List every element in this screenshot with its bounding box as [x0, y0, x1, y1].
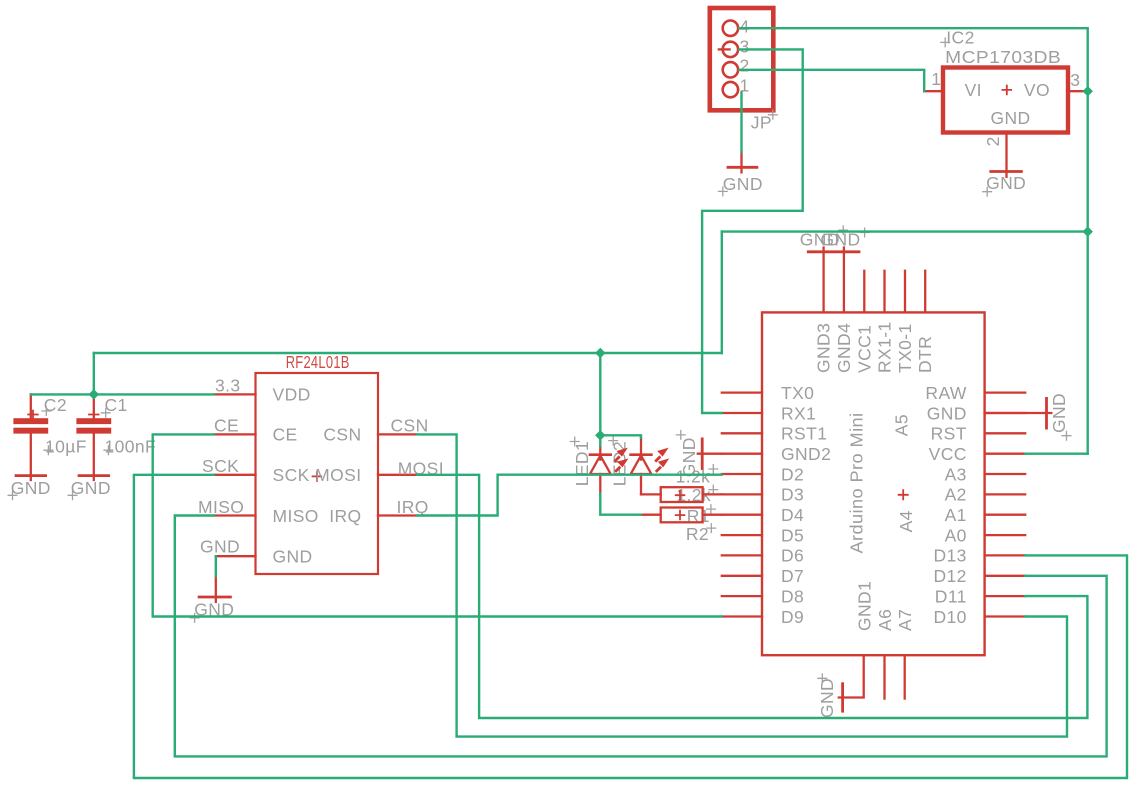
wire JP2 to IC2 VI	[739, 70, 924, 91]
svg-text:GND: GND	[273, 547, 313, 567]
wire CSN to D10	[417, 434, 1067, 736]
arduino bottom pin stubs	[839, 655, 905, 698]
wire LED riser	[599, 353, 601, 435]
svg-text:SCK: SCK	[202, 456, 239, 476]
ground GND1 symbol (arduino bottom)	[817, 673, 843, 718]
svg-text:GND: GND	[1049, 393, 1069, 433]
ground GND2 symbol (arduino left)	[676, 430, 722, 477]
svg-text:MISO: MISO	[198, 497, 244, 517]
svg-text:D12: D12	[933, 566, 966, 586]
resistor R2 (to D4)	[641, 508, 722, 545]
rf24 right pin stubs	[378, 434, 417, 515]
wire y232 rail to riser	[722, 230, 1088, 232]
svg-text:VI: VI	[965, 80, 982, 100]
svg-text:4: 4	[740, 17, 750, 37]
wire riser x721.8	[721, 232, 723, 353]
node junction J3	[595, 430, 605, 440]
svg-text:D11: D11	[935, 586, 967, 606]
module U2 RF24L01B	[198, 352, 444, 574]
pin circle 3	[723, 42, 738, 57]
IC U1 Arduino Pro Mini	[722, 248, 1025, 699]
svg-text:GND: GND	[927, 403, 967, 423]
svg-text:IRQ: IRQ	[329, 506, 361, 526]
R2 origin cross red	[675, 510, 686, 521]
svg-text:R2: R2	[686, 524, 709, 544]
svg-text:2: 2	[983, 136, 1003, 146]
wire RF24 GND pin down	[215, 556, 217, 576]
svg-text:D6: D6	[781, 546, 804, 566]
svg-text:3: 3	[1070, 70, 1080, 90]
svg-text:CSN: CSN	[391, 415, 429, 435]
svg-text:D7: D7	[781, 566, 804, 586]
wire IRQ to D2	[417, 475, 722, 516]
JP label cross	[768, 110, 778, 120]
ground GND (RF24)	[190, 576, 235, 623]
svg-text:D2: D2	[781, 464, 804, 484]
svg-text:CE: CE	[214, 415, 239, 435]
arduino origin cross red	[898, 489, 909, 500]
svg-text:D13: D13	[933, 546, 966, 566]
svg-text:GND: GND	[991, 108, 1031, 128]
rf24 left pin stubs	[214, 394, 256, 556]
svg-text:A4: A4	[896, 510, 916, 532]
ground GND (C2)	[8, 476, 51, 501]
ground GND (IC2)	[982, 172, 1026, 197]
rf24 origin cross red	[312, 471, 323, 482]
pin 3 lead	[1068, 90, 1083, 92]
header JP	[710, 8, 778, 132]
svg-text:C2: C2	[44, 395, 67, 415]
wire VDD row	[31, 393, 214, 395]
wire y353 horizontal	[94, 352, 722, 354]
svg-text:D9: D9	[781, 607, 804, 627]
svg-text:1.2k: 1.2k	[676, 467, 711, 487]
node junction J4	[1082, 86, 1092, 96]
svg-text:MCP1703DB: MCP1703DB	[945, 47, 1061, 67]
wire CE to D9	[153, 434, 722, 616]
pin 2 lead	[1005, 133, 1007, 177]
svg-text:CSN: CSN	[323, 425, 361, 445]
JP origin tick	[719, 48, 730, 50]
node junction J1	[89, 389, 99, 399]
pin circle 4	[723, 21, 738, 36]
ground GND (JP)	[718, 152, 763, 196]
R1 origin cross red	[675, 490, 686, 501]
voltage regulator IC2 MCP1703DB	[924, 28, 1083, 177]
pin circle 1	[723, 82, 738, 97]
wire VCC to right rail	[1025, 453, 1088, 455]
svg-text:A6: A6	[875, 609, 895, 631]
svg-text:RX1-1: RX1-1	[875, 321, 895, 373]
svg-text:RAW: RAW	[925, 383, 966, 403]
svg-text:RST1: RST1	[781, 424, 827, 444]
svg-text:LED1: LED1	[572, 441, 592, 486]
svg-text:A7: A7	[895, 609, 915, 631]
IC2 origin cross	[1002, 85, 1013, 96]
svg-text:A3: A3	[945, 464, 967, 484]
svg-text:10µF: 10µF	[45, 437, 87, 457]
svg-text:A0: A0	[945, 525, 967, 545]
svg-text:TX0: TX0	[781, 383, 814, 403]
wire SCK to D13	[134, 475, 1127, 778]
svg-text:D8: D8	[781, 586, 804, 606]
svg-text:A2: A2	[945, 485, 967, 505]
svg-text:TX0-1: TX0-1	[895, 323, 915, 373]
svg-text:GND3: GND3	[814, 323, 834, 373]
svg-text:IRQ: IRQ	[397, 497, 429, 517]
node junction J2	[595, 348, 605, 358]
svg-text:GND1: GND1	[855, 581, 875, 631]
svg-text:VO: VO	[1024, 80, 1050, 100]
svg-text:DTR: DTR	[915, 336, 935, 373]
svg-text:A1: A1	[945, 505, 967, 525]
capacitor C2 10uF	[13, 394, 86, 480]
svg-text:VDD: VDD	[273, 385, 311, 405]
svg-text:D4: D4	[781, 505, 804, 525]
svg-text:GND: GND	[723, 174, 763, 194]
svg-text:IC2: IC2	[946, 28, 974, 48]
svg-text:D5: D5	[781, 525, 804, 545]
wire MOSI to D11	[417, 475, 1087, 718]
svg-text:GND: GND	[986, 173, 1026, 193]
wire JP1 to GND	[740, 93, 742, 153]
ground GND (C1)	[68, 476, 111, 501]
ground GND symbol (arduino right)	[985, 393, 1072, 441]
svg-text:GND2: GND2	[781, 444, 831, 464]
arduino right pin stubs	[985, 393, 1026, 617]
svg-text:VCC1: VCC1	[854, 325, 874, 373]
svg-text:3: 3	[740, 36, 750, 56]
svg-text:GND: GND	[200, 536, 240, 556]
svg-text:RX1: RX1	[781, 403, 816, 423]
svg-text:SCK: SCK	[273, 465, 310, 485]
svg-text:MOSI: MOSI	[315, 465, 361, 485]
pin circle 2	[723, 62, 738, 77]
svg-text:3.3: 3.3	[215, 376, 241, 396]
wire net3v3 JP4 to right rail	[739, 28, 1087, 454]
svg-text:MISO: MISO	[273, 506, 319, 526]
resistor R1 (to D3)	[661, 464, 722, 526]
svg-text:D3: D3	[781, 485, 804, 505]
svg-text:A5: A5	[891, 414, 911, 436]
svg-text:RF24L01B: RF24L01B	[286, 352, 350, 372]
arduino left pin stubs	[722, 393, 762, 617]
ground GND symbols above arduino	[800, 225, 870, 252]
svg-text:GND4: GND4	[834, 323, 854, 373]
arduino top pin stubs	[824, 248, 926, 313]
svg-text:GND: GND	[817, 678, 837, 718]
capacitor C1 100nF	[76, 394, 156, 480]
LED1 emission arrows	[615, 448, 629, 472]
svg-text:2: 2	[740, 55, 750, 75]
wire MISO to D12	[175, 516, 1107, 757]
svg-text:VCC: VCC	[929, 444, 967, 464]
wire riser x93.8	[93, 353, 95, 394]
wire LED1 anode to R2	[600, 494, 640, 515]
C1 origin cross red	[88, 410, 99, 420]
LED LED1	[570, 437, 612, 494]
svg-text:RST: RST	[931, 424, 967, 444]
node junction J5	[1082, 226, 1092, 236]
C2 origin cross red	[27, 410, 38, 420]
wire LED1 cathode stub	[599, 435, 601, 446]
svg-text:D10: D10	[933, 607, 966, 627]
wire LED1 to LED2 top	[600, 435, 641, 438]
LED2 emission arrows	[655, 448, 669, 472]
wire JP3 to RX1	[702, 49, 803, 413]
svg-text:100nF: 100nF	[105, 437, 157, 457]
svg-text:1: 1	[931, 69, 941, 89]
svg-text:Arduino Pro Mini: Arduino Pro Mini	[847, 413, 867, 554]
LED LED2	[608, 436, 661, 495]
pin 1 lead	[924, 90, 943, 92]
svg-text:CE: CE	[273, 425, 298, 445]
